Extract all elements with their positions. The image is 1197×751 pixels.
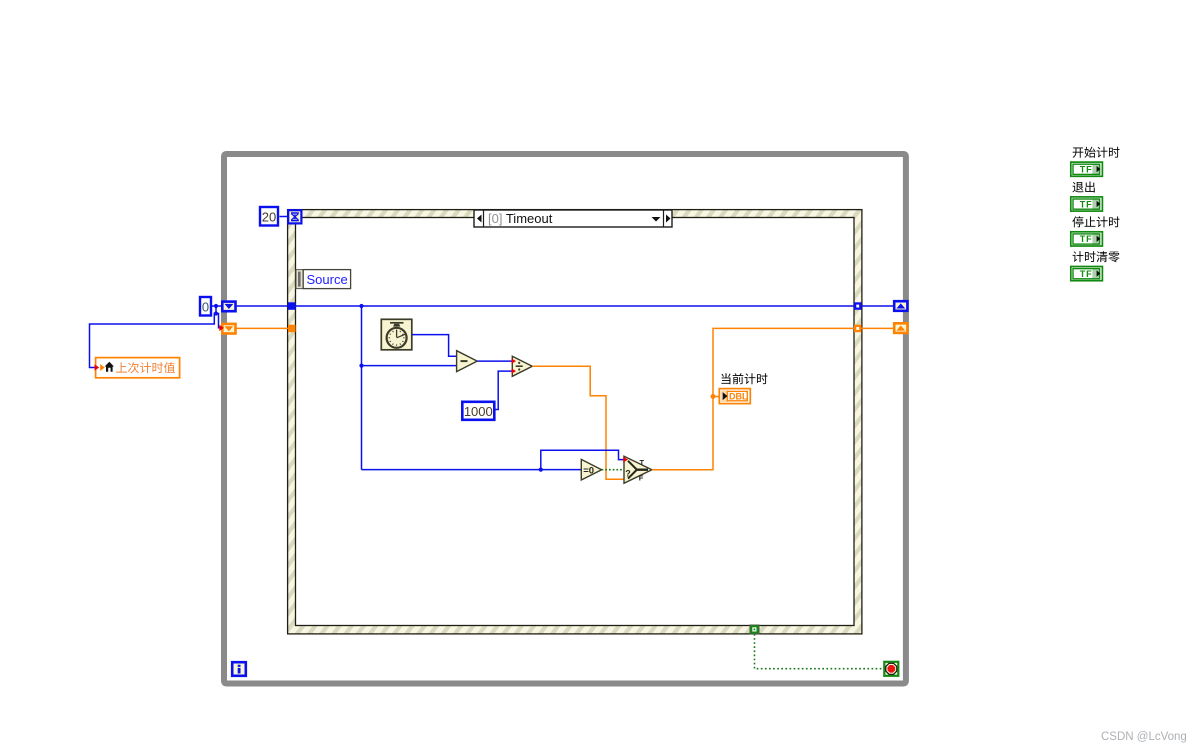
svg-text:DBL: DBL: [729, 392, 748, 402]
svg-text:CSDN @LcVong: CSDN @LcVong: [1101, 731, 1187, 743]
boolean dotted wire =0 to select: [602, 469, 624, 471]
svg-text:TF: TF: [1080, 199, 1093, 209]
indicator 当前计时 (DBL): [721, 373, 767, 384]
wire clock to subtract: [412, 335, 457, 357]
svg-text:=0: =0: [583, 466, 594, 477]
wire 0 to left shift registers and local variable: [90, 306, 223, 368]
wire main blue horizontal: [237, 306, 894, 470]
svg-text:0: 0: [202, 300, 209, 315]
numeric constant 0: [200, 297, 211, 316]
wire 20 to hourglass: [280, 216, 289, 218]
green tunnel on event bottom border: [750, 625, 759, 634]
event structure selector "[0] Timeout": [474, 210, 672, 227]
blue tunnel left event border: [288, 302, 296, 310]
control 停止计时 TF terminal: [1071, 232, 1103, 246]
control 退出 TF terminal: [1071, 197, 1103, 211]
coercion dot select top: [623, 457, 628, 463]
select function: [624, 456, 652, 483]
subtract function: [457, 351, 478, 372]
event timeout terminal (hourglass): [288, 210, 301, 223]
while loop border: [224, 154, 906, 684]
wire to equal-zero and select top: [362, 450, 625, 469]
wire select output to indicator and right tunnel: [652, 328, 894, 469]
wire divide output to select false input: [532, 366, 624, 479]
wire subtract to divide: [477, 360, 512, 362]
svg-text:TF: TF: [1080, 165, 1093, 175]
orange tunnel left event border: [288, 325, 296, 333]
coercion dots divide inputs: [512, 358, 517, 363]
svg-text:1000: 1000: [464, 404, 493, 419]
numeric constant 20: [260, 207, 278, 226]
control 开始计时 label: [1073, 147, 1120, 158]
svg-text:F: F: [639, 474, 644, 483]
loop stop condition terminal: [884, 662, 898, 676]
svg-text:Source: Source: [307, 272, 348, 287]
dotted boolean wire to stop terminal: [755, 634, 884, 669]
Source free label: [296, 270, 303, 289]
control 停止计时 label: [1072, 216, 1119, 227]
orange tunnel right event border: [854, 325, 862, 333]
coercion dot on orange shift register: [219, 325, 224, 331]
Tick Count (ms) clock function: [381, 319, 412, 350]
divide function: [512, 356, 532, 376]
control 计时清零 label: [1073, 251, 1120, 262]
event structure border (hatched): [288, 210, 862, 634]
wire 1000 to divide: [496, 371, 513, 409]
svg-text:[0] Timeout: [0] Timeout: [488, 211, 553, 226]
svg-text:TF: TF: [1080, 234, 1093, 244]
numeric constant 1000: [462, 402, 494, 420]
shift register right orange terminal: [894, 323, 907, 333]
svg-text:20: 20: [262, 210, 276, 225]
control 开始计时 TF terminal: [1071, 162, 1103, 176]
blue tunnel right event border: [854, 302, 862, 310]
control 计时清零 TF terminal: [1071, 267, 1103, 281]
control 退出 label: [1072, 182, 1094, 193]
svg-text:?: ?: [625, 469, 631, 479]
loop iteration terminal i: [232, 662, 246, 676]
svg-text:TF: TF: [1080, 269, 1093, 279]
shift register left orange terminal: [222, 324, 235, 334]
svg-text:T: T: [640, 458, 645, 467]
equal-to-zero function: [581, 459, 601, 480]
local variable 上次计时值: [96, 358, 180, 378]
shift register right blue terminal: [894, 301, 907, 311]
wire orange shift register to tunnel: [237, 327, 289, 329]
shift register left blue terminal: [222, 302, 235, 312]
